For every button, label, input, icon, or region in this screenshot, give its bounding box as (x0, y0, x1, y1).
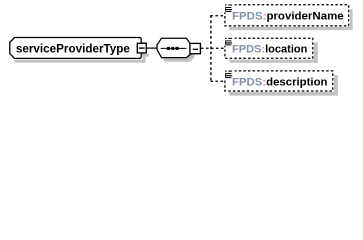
wire root to sequence (146, 47, 157, 49)
element FPDS:description icon patch (224, 70, 235, 79)
element FPDS:location box (225, 38, 313, 58)
sequence expand minus sign (193, 48, 198, 50)
root expand box shadow (142, 54, 149, 57)
element FPDS:location shadow (229, 42, 318, 62)
root element box shadow (bottom strip) (14, 60, 144, 63)
dashed branch vertical wire (210, 15, 212, 82)
svg-text:FPDS:location: FPDS:location (232, 44, 308, 56)
sequence dot 3 (176, 47, 179, 50)
element FPDS:providerName box (225, 5, 349, 26)
root element serviceProviderType box (10, 38, 141, 59)
dashed wire sequence to branch and to location (201, 47, 224, 49)
dashed wire to providerName (210, 15, 224, 17)
svg-text:serviceProviderType: serviceProviderType (16, 41, 130, 55)
root expand minus sign (139, 47, 145, 49)
element FPDS:location text icon (225, 38, 232, 46)
sequence dot 2 (171, 47, 174, 50)
root expand (minus) box (137, 43, 146, 53)
dashed wire to description (210, 80, 224, 82)
sequence compositor octagon (157, 38, 191, 57)
root element box shadow (right strip) (142, 42, 145, 63)
sequence line (161, 47, 187, 49)
svg-text:FPDS:providerName: FPDS:providerName (232, 11, 344, 23)
element FPDS:providerName shadow (229, 9, 352, 30)
element FPDS:description shadow (229, 75, 338, 95)
element FPDS:description box (225, 71, 333, 91)
sequence expand (minus) box (190, 43, 201, 53)
sequence dot 1 (167, 47, 170, 50)
svg-text:FPDS:description: FPDS:description (232, 76, 328, 88)
sequence compositor shadow (160, 42, 194, 61)
element FPDS:providerName icon patch (224, 3, 235, 12)
element FPDS:providerName text icon (225, 4, 232, 12)
element FPDS:description text icon (225, 71, 232, 79)
element FPDS:location icon patch (224, 37, 235, 46)
